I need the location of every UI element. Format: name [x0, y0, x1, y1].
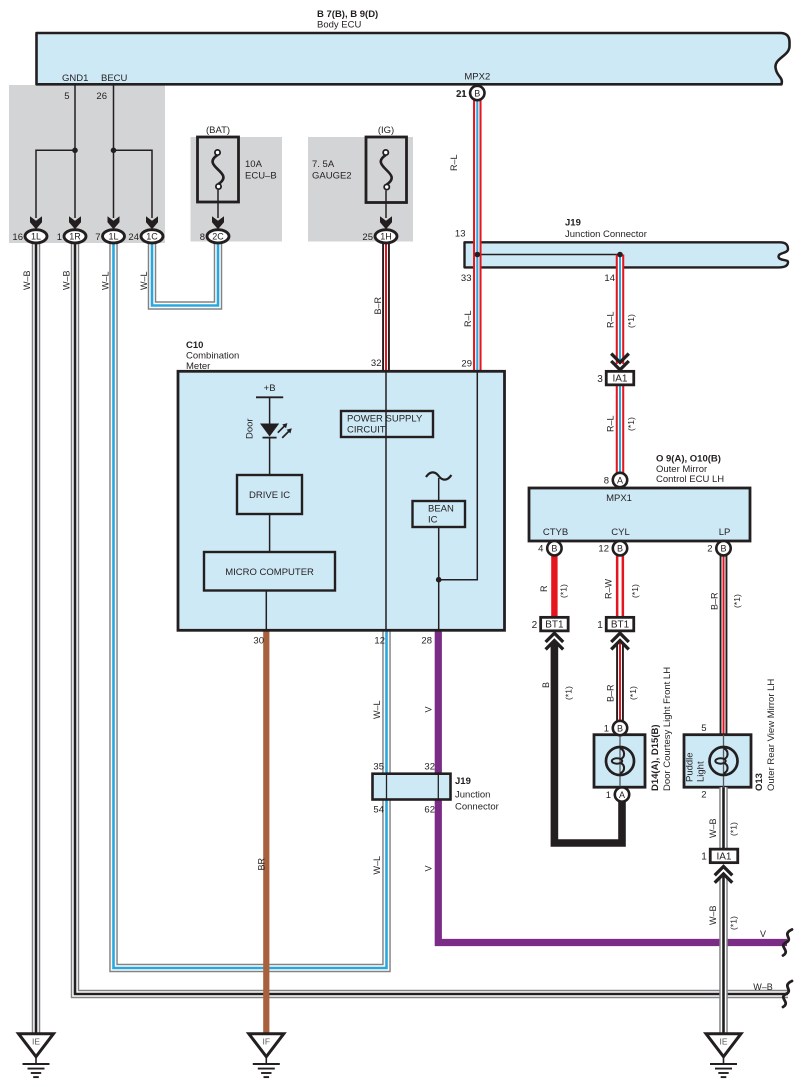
- svg-text:IA1: IA1: [716, 851, 731, 862]
- svg-text:W–B: W–B: [753, 982, 773, 992]
- svg-text:14: 14: [604, 273, 615, 284]
- svg-text:R–L: R–L: [606, 415, 616, 432]
- svg-text:4: 4: [538, 544, 543, 555]
- svg-text:2: 2: [701, 790, 706, 801]
- svg-text:Body ECU: Body ECU: [317, 20, 361, 31]
- svg-text:1C: 1C: [146, 232, 158, 242]
- svg-text:BECU: BECU: [101, 73, 128, 84]
- svg-text:12: 12: [598, 544, 609, 555]
- svg-text:32: 32: [424, 762, 435, 773]
- svg-text:V: V: [424, 706, 434, 712]
- svg-text:O 9(A), O10(B): O 9(A), O10(B): [656, 454, 721, 465]
- svg-text:BT1: BT1: [545, 620, 564, 631]
- svg-text:(*1): (*1): [626, 314, 636, 328]
- svg-text:BT1: BT1: [611, 620, 630, 631]
- svg-text:B 7(B), B 9(D): B 7(B), B 9(D): [317, 9, 378, 20]
- svg-text:Control ECU LH: Control ECU LH: [656, 474, 724, 485]
- svg-text:IF: IF: [263, 1037, 271, 1047]
- svg-text:CIRCUIT: CIRCUIT: [347, 425, 386, 436]
- svg-text:10A: 10A: [245, 159, 263, 170]
- svg-text:GAUGE2: GAUGE2: [312, 171, 352, 182]
- svg-text:R–L: R–L: [449, 154, 459, 171]
- svg-text:B: B: [720, 544, 726, 554]
- svg-text:+B: +B: [264, 383, 276, 394]
- svg-text:Light: Light: [696, 761, 707, 782]
- svg-text:1: 1: [597, 620, 603, 631]
- svg-text:8: 8: [604, 476, 609, 487]
- svg-text:1H: 1H: [380, 232, 392, 242]
- svg-text:R–L: R–L: [463, 310, 473, 327]
- svg-text:IC: IC: [428, 515, 438, 526]
- svg-text:Junction Connector: Junction Connector: [565, 229, 647, 240]
- svg-text:J19: J19: [455, 776, 471, 787]
- svg-text:12: 12: [374, 636, 385, 647]
- svg-text:J19: J19: [565, 218, 581, 229]
- svg-text:54: 54: [373, 805, 384, 816]
- svg-text:30: 30: [253, 636, 264, 647]
- svg-text:A: A: [617, 475, 623, 485]
- svg-text:(*1): (*1): [729, 916, 739, 930]
- svg-text:DRIVE IC: DRIVE IC: [249, 490, 290, 501]
- svg-text:IE: IE: [32, 1037, 40, 1047]
- svg-text:POWER SUPPLY: POWER SUPPLY: [347, 414, 423, 425]
- svg-text:O13: O13: [754, 773, 765, 791]
- svg-text:Connector: Connector: [455, 802, 499, 813]
- svg-text:R–L: R–L: [606, 311, 616, 328]
- svg-text:8: 8: [200, 232, 205, 243]
- svg-text:2: 2: [707, 544, 712, 555]
- svg-text:MICRO COMPUTER: MICRO COMPUTER: [225, 567, 314, 578]
- svg-text:IA1: IA1: [612, 374, 627, 385]
- svg-text:2C: 2C: [212, 232, 224, 242]
- svg-text:B: B: [617, 544, 623, 554]
- svg-text:CTYB: CTYB: [543, 527, 568, 538]
- svg-text:13: 13: [455, 229, 466, 240]
- svg-text:(BAT): (BAT): [206, 125, 230, 136]
- svg-text:MPX1: MPX1: [606, 493, 632, 504]
- svg-text:3: 3: [597, 374, 603, 385]
- svg-text:26: 26: [96, 91, 107, 102]
- svg-text:2: 2: [532, 620, 538, 631]
- svg-text:(*1): (*1): [628, 686, 638, 700]
- svg-text:7. 5A: 7. 5A: [312, 159, 335, 170]
- svg-text:W–L: W–L: [372, 856, 382, 875]
- svg-text:24: 24: [128, 232, 139, 243]
- svg-text:25: 25: [362, 232, 373, 243]
- svg-text:1: 1: [606, 790, 611, 801]
- svg-text:(*1): (*1): [559, 584, 569, 598]
- svg-text:B: B: [541, 682, 551, 688]
- svg-text:W–B: W–B: [62, 270, 72, 290]
- svg-text:Junction: Junction: [455, 790, 490, 801]
- svg-text:Combination: Combination: [186, 351, 239, 362]
- svg-text:B–R: B–R: [710, 592, 720, 610]
- svg-text:35: 35: [373, 762, 384, 773]
- svg-text:B: B: [551, 544, 557, 554]
- svg-text:GND1: GND1: [62, 73, 88, 84]
- svg-text:(*1): (*1): [630, 584, 640, 598]
- svg-text:B: B: [474, 88, 480, 98]
- svg-text:29: 29: [461, 359, 472, 370]
- svg-text:B–R: B–R: [373, 296, 383, 314]
- svg-text:1L: 1L: [108, 232, 118, 242]
- svg-text:5: 5: [64, 91, 69, 102]
- svg-text:C10: C10: [186, 340, 203, 351]
- svg-text:32: 32: [371, 358, 382, 369]
- svg-text:CYL: CYL: [611, 527, 629, 538]
- svg-text:V: V: [424, 865, 434, 871]
- svg-text:Outer Rear View Mirror LH: Outer Rear View Mirror LH: [766, 679, 777, 791]
- svg-text:MPX2: MPX2: [464, 72, 490, 83]
- svg-text:Meter: Meter: [186, 361, 210, 372]
- svg-text:Door: Door: [245, 418, 256, 439]
- svg-text:(*1): (*1): [729, 822, 739, 836]
- svg-text:(*1): (*1): [626, 417, 636, 431]
- svg-text:W–L: W–L: [139, 271, 149, 290]
- svg-text:LP: LP: [719, 527, 731, 538]
- svg-text:W–B: W–B: [22, 270, 32, 290]
- svg-text:1L: 1L: [31, 232, 41, 242]
- svg-text:1: 1: [604, 724, 609, 735]
- svg-text:7: 7: [95, 232, 100, 243]
- svg-text:33: 33: [461, 273, 472, 284]
- svg-text:ECU–B: ECU–B: [245, 171, 277, 182]
- svg-text:Door Courtesy Light Front LH: Door Courtesy Light Front LH: [662, 667, 673, 791]
- svg-text:R: R: [539, 585, 549, 592]
- svg-text:BR: BR: [257, 857, 267, 870]
- svg-text:A: A: [619, 790, 625, 800]
- svg-text:W–B: W–B: [708, 818, 718, 838]
- svg-text:B–R: B–R: [606, 684, 616, 702]
- svg-text:D14(A), D15(B): D14(A), D15(B): [650, 724, 661, 791]
- svg-text:(*1): (*1): [732, 594, 742, 608]
- svg-text:B: B: [617, 723, 623, 733]
- svg-text:5: 5: [701, 723, 706, 734]
- svg-text:1: 1: [57, 232, 62, 243]
- svg-text:1R: 1R: [69, 232, 81, 242]
- svg-text:R–W: R–W: [604, 578, 614, 599]
- svg-text:BEAN: BEAN: [428, 504, 454, 515]
- svg-text:V: V: [760, 929, 766, 939]
- svg-text:W–L: W–L: [372, 700, 382, 719]
- svg-text:W–L: W–L: [101, 271, 111, 290]
- svg-text:W–B: W–B: [708, 905, 718, 925]
- svg-text:(*1): (*1): [564, 686, 574, 700]
- svg-text:Puddle: Puddle: [685, 752, 696, 782]
- svg-text:62: 62: [424, 805, 435, 816]
- svg-text:28: 28: [421, 636, 432, 647]
- svg-text:21: 21: [456, 89, 467, 100]
- svg-text:IE: IE: [719, 1037, 727, 1047]
- svg-text:16: 16: [12, 232, 23, 243]
- svg-text:1: 1: [701, 852, 707, 863]
- svg-text:(IG): (IG): [378, 125, 394, 136]
